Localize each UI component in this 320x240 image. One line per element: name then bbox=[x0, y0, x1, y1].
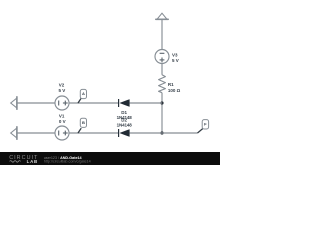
power terminal VCC (top) bbox=[156, 13, 168, 19]
flag B bbox=[78, 118, 87, 133]
svg-text:http://circuitlab.com/c/gate14: http://circuitlab.com/c/gate14 bbox=[44, 159, 91, 163]
diode D2 bbox=[119, 129, 130, 137]
svg-text:V2: V2 bbox=[59, 83, 65, 88]
input terminal (row A) bbox=[11, 97, 17, 109]
voltage source V1 bbox=[55, 126, 69, 140]
flag F bbox=[198, 120, 209, 133]
svg-text:A: A bbox=[82, 91, 85, 96]
wire bbox=[130, 102, 163, 104]
diode D1 bbox=[119, 99, 130, 107]
junction node (output net) bbox=[160, 131, 163, 134]
footer bar bbox=[0, 152, 220, 165]
svg-text:0 V: 0 V bbox=[59, 119, 66, 124]
CircuitLab logo waveform bbox=[10, 161, 21, 163]
wire bbox=[130, 132, 198, 134]
wire bbox=[161, 64, 163, 75]
svg-text:V3: V3 bbox=[172, 52, 178, 57]
wire bbox=[161, 20, 163, 50]
wire bbox=[69, 132, 118, 134]
svg-text:LAB: LAB bbox=[27, 159, 38, 164]
wire bbox=[161, 93, 163, 133]
svg-text:5 V: 5 V bbox=[59, 88, 66, 93]
voltage source V2 bbox=[55, 96, 69, 110]
svg-text:100 Ω: 100 Ω bbox=[168, 88, 181, 93]
wire bbox=[18, 132, 56, 134]
input terminal (row B) bbox=[11, 127, 17, 139]
svg-text:5 V: 5 V bbox=[172, 58, 179, 63]
svg-text:B: B bbox=[82, 120, 85, 125]
wire bbox=[18, 102, 56, 104]
flag A bbox=[78, 89, 87, 103]
junction node (R1 / D1) bbox=[160, 101, 163, 104]
wire bbox=[69, 102, 118, 104]
svg-text:1N4148: 1N4148 bbox=[117, 122, 133, 127]
voltage source V3 bbox=[155, 50, 169, 64]
svg-text:V1: V1 bbox=[59, 113, 65, 118]
resistor R1 bbox=[159, 75, 166, 93]
svg-text:R1: R1 bbox=[168, 82, 174, 87]
